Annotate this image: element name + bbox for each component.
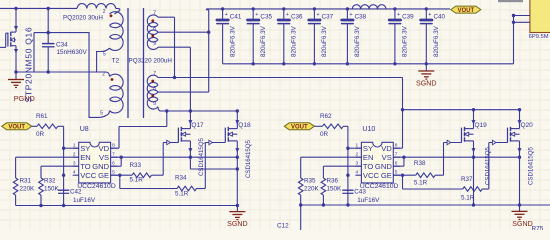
svg-text:0R: 0R: [320, 131, 329, 138]
wire TO drop: [40, 166, 42, 178]
svg-text:820uF6.3V: 820uF6.3V: [433, 25, 440, 57]
transformer T2 secondary winding upper 7-8: [147, 15, 158, 34]
svg-text:STP20NM50 Q16: STP20NM50 Q16: [24, 27, 34, 103]
label R32: [44, 178, 56, 185]
svg-text:EN: EN: [80, 153, 91, 162]
svg-text:R33: R33: [130, 162, 142, 169]
label C42 value 1uF16V: [73, 197, 96, 204]
svg-text:CSD16415Q5: CSD16415Q5: [245, 139, 252, 178]
transistor Q16 (STP20NM50): [0, 32, 18, 72]
ground SGND mid: [227, 206, 248, 229]
svg-text:8: 8: [153, 86, 156, 92]
label R75: [532, 226, 544, 233]
svg-text:C38: C38: [355, 13, 367, 20]
label C41 value 820uF6.3V: [229, 25, 236, 57]
wire drop to C12 net: [300, 205, 302, 230]
node junction C39 bottom: [393, 62, 396, 65]
wire VOUT to R62: [314, 125, 322, 127]
node junction C43 bottom: [346, 203, 349, 206]
svg-text:5.1R: 5.1R: [414, 179, 428, 186]
svg-text:SGND: SGND: [512, 220, 533, 228]
label R38: [414, 160, 426, 167]
svg-text:2: 2: [103, 9, 106, 15]
svg-text:C34: C34: [56, 42, 68, 49]
svg-text:15nH630V: 15nH630V: [57, 49, 88, 56]
label R31: [20, 178, 32, 185]
svg-text:5.1R: 5.1R: [130, 177, 144, 184]
svg-text:8: 8: [153, 26, 156, 32]
svg-text:TO: TO: [363, 162, 374, 171]
label R34 value 5.1R: [175, 190, 189, 197]
svg-text:7: 7: [112, 151, 115, 157]
wire switch-node riser: [33, 33, 35, 72]
wire primary lower pin5 lead: [89, 33, 110, 118]
svg-text:CSD16415Q5: CSD16415Q5: [485, 146, 492, 185]
label C38: [355, 13, 367, 20]
svg-text:6: 6: [112, 160, 115, 166]
label R61 value 0R: [36, 131, 45, 138]
svg-text:2: 2: [73, 151, 76, 157]
label C40 value 820uF6.3V: [433, 25, 440, 57]
wire R33 to Q17 gate: [152, 143, 164, 176]
svg-text:7: 7: [153, 71, 156, 77]
svg-text:C41: C41: [230, 13, 242, 20]
label R33: [130, 162, 142, 169]
wire VS line U10: [393, 156, 519, 158]
svg-text:8: 8: [112, 142, 115, 148]
svg-text:R62: R62: [320, 113, 332, 120]
node junction drain rail tap: [401, 108, 404, 111]
svg-text:VOUT: VOUT: [457, 8, 474, 14]
wire switch-node horizontal: [34, 32, 89, 34]
label C37 value 820uF6.3V: [321, 25, 328, 57]
svg-text:SY: SY: [363, 144, 373, 153]
node junction 7u-7l tie: [173, 76, 176, 79]
label C43 value 1uF16V: [357, 197, 380, 204]
svg-text:4: 4: [73, 169, 76, 175]
svg-text:1: 1: [356, 142, 359, 148]
wire R35 to rail: [300, 195, 302, 205]
svg-text:820uF6.3V: 820uF6.3V: [354, 25, 361, 57]
node junction Q18 source rail: [236, 167, 239, 170]
label C35 value 820uF6.3V: [260, 25, 267, 57]
wire Q16 drain vertical: [14, 8, 18, 32]
connector 6P9.5MM: [529, 0, 550, 40]
resistor R36 150K: [321, 178, 326, 195]
node junction Q20 source on VS line: [518, 156, 521, 159]
ground SGND right: [512, 205, 533, 228]
wire R62 to SY/VCC vertical: [343, 126, 348, 205]
label T2 pin 5 lower: [100, 111, 103, 117]
capacitor C43 1uF16V: [342, 190, 353, 193]
wire 9u drop to SR drain net: [189, 47, 191, 111]
wire R32 to rail: [40, 195, 42, 206]
wire VS to GND pin link U10: [393, 157, 404, 166]
svg-text:2: 2: [356, 151, 359, 157]
wire EN line U10: [301, 156, 362, 158]
svg-text:VCC: VCC: [363, 171, 380, 180]
wire R31 to rail: [15, 195, 17, 206]
wire GE drop to R34 line: [120, 175, 177, 188]
node junction Q20 drain: [518, 108, 521, 111]
svg-text:UCC24610D: UCC24610D: [77, 183, 116, 190]
svg-text:U8: U8: [80, 126, 89, 133]
wire R38 to Q19 gate: [435, 143, 443, 176]
svg-text:5.1R: 5.1R: [461, 195, 475, 202]
wire GE drop to R37 line: [403, 175, 463, 189]
label C38 value 820uF6.3V: [354, 25, 361, 57]
ground PGND: [8, 72, 35, 103]
transistor Q20 CSD16415Q5: [489, 110, 533, 158]
svg-text:SY: SY: [80, 144, 90, 153]
wire TO drop U10: [322, 166, 324, 178]
capacitor C37 820uF6.3V: [307, 7, 321, 64]
node junction Q19 drain: [472, 108, 475, 111]
svg-text:820uF6.3V: 820uF6.3V: [260, 25, 267, 57]
label T2 pin 8 upper: [153, 26, 156, 32]
svg-text:3: 3: [356, 160, 359, 166]
svg-text:820uF6.3V: 820uF6.3V: [402, 25, 409, 57]
svg-text:1: 1: [73, 142, 76, 148]
label C36: [291, 13, 303, 20]
capacitor C40 820uF6.3V: [419, 7, 433, 64]
node junction Q19 source rail: [472, 203, 475, 206]
svg-text:C37: C37: [322, 13, 334, 20]
wire primary link pin5-to-pin2: [97, 48, 110, 72]
label C39: [402, 13, 414, 20]
svg-text:1uF16V: 1uF16V: [357, 197, 380, 204]
node polarity dot primary lower: [111, 78, 114, 81]
label R61: [36, 113, 48, 120]
wire cap bank top rail: [206, 9, 450, 10]
label C42: [70, 188, 82, 195]
svg-text:5: 5: [112, 169, 115, 175]
wire TO line: [41, 165, 79, 167]
label T2 part PQ3220 200uH: [129, 57, 173, 64]
label C41: [230, 13, 242, 20]
power port VOUT top right: [451, 6, 481, 14]
resistor R31 220K: [13, 178, 18, 195]
node junction Q16 source to PGND: [14, 70, 17, 73]
label T2 pin 7 upper: [153, 11, 156, 17]
wire pin9 upper lead: [158, 46, 190, 48]
svg-text:VD: VD: [99, 144, 110, 153]
node junction 8u on VOUT drop: [207, 31, 210, 34]
svg-text:R75: R75: [532, 226, 544, 230]
node junction top rail at C34 branch: [47, 7, 50, 10]
svg-text:CSD16415Q5: CSD16415Q5: [198, 137, 205, 176]
wire VOUT to R61: [32, 125, 37, 127]
wire rail to transformer pin 2: [115, 8, 120, 14]
svg-text:C40: C40: [434, 13, 446, 20]
wire SY pin lead U10: [348, 147, 362, 149]
svg-text:4: 4: [356, 169, 359, 175]
node junction 9-net at Q17 drain: [189, 109, 192, 112]
node junction C40 bottom: [425, 62, 428, 65]
svg-text:R34: R34: [175, 175, 187, 182]
transistor Q18 CSD16415Q5: [205, 111, 251, 157]
svg-text:3: 3: [73, 160, 76, 166]
wire U8 local ground rail: [16, 205, 238, 207]
svg-text:CSD16415Q5: CSD16415Q5: [528, 146, 535, 185]
node junction R36 bottom: [322, 203, 325, 206]
svg-text:R61: R61: [36, 113, 48, 120]
wire top rail left section: [0, 7, 77, 9]
power port VOUT middle: [284, 123, 314, 131]
svg-text:UCC24610D: UCC24610D: [360, 183, 399, 190]
svg-text:6P9.5M: 6P9.5M: [529, 34, 549, 40]
wire EN drop left: [15, 157, 17, 178]
wire R36 to rail: [322, 195, 324, 205]
wire net 7u-7l vertical: [174, 17, 176, 77]
svg-text:820uF6.3V: 820uF6.3V: [291, 25, 298, 57]
svg-text:Q18: Q18: [238, 122, 251, 129]
label R32 value 150K: [44, 186, 60, 193]
label R38 value 5.1R: [414, 179, 428, 186]
svg-text:SGND: SGND: [416, 80, 437, 88]
svg-text:C35: C35: [260, 13, 272, 20]
svg-text:U10: U10: [362, 126, 375, 133]
svg-text:+: +: [428, 12, 431, 18]
wire EN drop U10: [300, 157, 302, 178]
label Q18 part CSD16415Q5: [245, 139, 252, 178]
node junction at C34 top: [47, 31, 50, 34]
wire VD sense link U8: [111, 111, 167, 148]
node junction C36 bottom: [282, 62, 285, 65]
node junction VS-GND tie U10: [402, 156, 405, 159]
node junction connector pin 2: [512, 21, 515, 24]
wire EN line: [16, 156, 79, 158]
resistor R61 0R: [37, 124, 58, 129]
svg-text:C39: C39: [402, 13, 414, 20]
svg-text:1uF16V: 1uF16V: [73, 197, 96, 204]
svg-text:GE: GE: [98, 171, 109, 180]
svg-text:R35: R35: [304, 178, 316, 185]
resistor R62 0R: [322, 124, 343, 129]
node junction Q17 source on VS line: [189, 156, 192, 159]
wire R61 to SY/VCC vertical: [58, 126, 64, 205]
wire R34 to Q18 gate: [197, 143, 206, 189]
label C37: [322, 13, 334, 20]
label C35: [260, 13, 272, 20]
wire C34 upper lead: [47, 8, 49, 43]
wire connector ground drop: [513, 16, 515, 64]
svg-text:R31: R31: [20, 178, 32, 185]
svg-text:150K: 150K: [327, 186, 343, 193]
label R35 value 220K: [304, 186, 320, 193]
svg-text:GND: GND: [92, 162, 109, 171]
svg-text:PQ2020 30uH: PQ2020 30uH: [63, 14, 103, 21]
node junction GE split U10: [401, 174, 404, 177]
node junction Q19 source on VS line: [472, 156, 475, 159]
label C36 value 820uF6.3V: [291, 25, 298, 57]
svg-text:VOUT: VOUT: [291, 125, 308, 131]
node polarity dot secondary lower 8-9: [151, 94, 154, 97]
svg-text:Q20: Q20: [521, 122, 534, 129]
svg-text:T2: T2: [112, 57, 120, 64]
svg-text:8: 8: [395, 142, 398, 148]
resistor R37 5.1R: [463, 187, 483, 192]
node junction VCC tap: [62, 174, 65, 177]
label R37: [461, 176, 473, 183]
transformer T2 secondary winding lower 7-8: [147, 75, 158, 94]
svg-text:0R: 0R: [36, 131, 45, 138]
svg-text:5: 5: [103, 52, 106, 58]
svg-text:820uF6.3V: 820uF6.3V: [321, 25, 328, 57]
wire Q18 source drop to ground rail: [236, 157, 238, 205]
svg-text:150K: 150K: [44, 186, 60, 193]
svg-text:R36: R36: [327, 178, 339, 185]
svg-text:9: 9: [153, 41, 156, 47]
svg-text:220K: 220K: [20, 186, 36, 193]
node junction VS-GND tie: [120, 156, 123, 159]
label R33 value 5.1R: [130, 177, 144, 184]
node junction SY tap U10: [346, 147, 349, 150]
svg-text:9: 9: [153, 101, 156, 107]
capacitor C35 820uF6.3V: [246, 7, 260, 64]
capacitor C38 820uF6.3V: [340, 7, 354, 64]
svg-text:2: 2: [102, 72, 105, 78]
node junction C38 bottom: [346, 62, 349, 65]
svg-text:VS: VS: [99, 153, 109, 162]
wire cap bank bottom rail: [223, 63, 514, 65]
wire GE lead U10: [393, 174, 415, 176]
node junction 9-net VD tap: [165, 109, 168, 112]
node polarity dot secondary lower 7-8: [151, 80, 154, 83]
svg-text:Q17: Q17: [191, 122, 204, 129]
capacitor C42 1uF16V: [58, 190, 69, 193]
transformer T2 core: [128, 8, 144, 118]
svg-text:+: +: [225, 12, 228, 18]
label C34 value 15nH630V: [56, 42, 87, 57]
transformer T2 secondary winding lower 8-9: [147, 90, 162, 111]
svg-text:R37: R37: [461, 176, 473, 183]
node polarity dot secondary upper 7-8: [151, 19, 154, 22]
wire cut-off element top edge: [498, 0, 523, 2]
node junction top rail at Q16 drain: [14, 7, 17, 10]
svg-text:VD: VD: [381, 144, 392, 153]
wire connector pin stubs: [514, 16, 530, 23]
label R36: [327, 178, 339, 185]
capacitor C41 820uF6.3V: [216, 7, 230, 64]
node junction VCC tap U10: [346, 174, 349, 177]
svg-text:5: 5: [100, 111, 103, 117]
svg-text:R32: R32: [44, 178, 56, 185]
wire pin8 upper lead: [158, 31, 209, 33]
svg-text:TO: TO: [80, 162, 91, 171]
svg-text:7: 7: [395, 151, 398, 157]
label R36 value 150K: [327, 186, 343, 193]
transformer T2 primary winding upper (pins 2-5): [110, 12, 124, 51]
node junction C37 bottom: [313, 62, 316, 65]
node polarity dot secondary upper 8-9: [151, 34, 154, 37]
node junction GE split: [118, 174, 121, 177]
svg-text:+: +: [316, 12, 319, 18]
transformer T2 primary winding lower (pins 2-5): [106, 72, 123, 113]
svg-text:C12: C12: [277, 223, 289, 230]
svg-text:+: +: [349, 12, 352, 18]
power port VOUT left: [2, 123, 32, 131]
label C12: [277, 223, 289, 230]
node junction R35 bottom: [299, 203, 302, 206]
node junction Q18 drain: [236, 109, 239, 112]
inductor PQ2020 30uH: [77, 4, 115, 9]
svg-text:VCC: VCC: [80, 171, 97, 180]
resistor R34 5.1R: [177, 186, 197, 191]
svg-text:EN: EN: [363, 153, 374, 162]
node junction R32 bottom: [39, 204, 42, 207]
label C39 value 820uF6.3V: [402, 25, 409, 57]
label R62 value 0R: [320, 131, 329, 138]
resistor R35 220K: [298, 178, 303, 195]
wire primary return horizontal: [16, 71, 106, 73]
wire VS to GND pin link: [111, 157, 122, 166]
svg-text:+: +: [286, 12, 289, 18]
svg-text:7: 7: [153, 11, 156, 17]
svg-text:+: +: [397, 12, 400, 18]
wire R37 to Q20 gate: [482, 143, 489, 190]
node polarity dot primary upper: [110, 14, 113, 17]
label T2 pin 5 upper: [103, 52, 106, 58]
svg-text:C36: C36: [291, 13, 303, 20]
resistor R33 5.1R: [132, 173, 152, 178]
label R31 value 220K: [20, 186, 36, 193]
node junction ground rail at SGND right: [518, 203, 521, 206]
wire SY pin lead: [64, 147, 79, 149]
label T2 pin 7 lower: [153, 71, 156, 77]
svg-text:PQ3220 200uH: PQ3220 200uH: [129, 57, 173, 64]
wire pin8 lower lead: [158, 91, 209, 93]
svg-text:820uF6.3V: 820uF6.3V: [229, 25, 236, 57]
wire pin7 lower lead long (drain net Q19 Q20): [158, 77, 403, 79]
svg-text:GE: GE: [381, 171, 392, 180]
label R35: [304, 178, 316, 185]
capacitor C39 820uF6.3V: [388, 7, 402, 64]
capacitor C34: [42, 44, 55, 47]
svg-text:5: 5: [395, 169, 398, 175]
svg-text:+: +: [255, 12, 258, 18]
node junction C34 to primary return: [47, 70, 50, 73]
op-amp U10 UCC24610D: [355, 126, 400, 190]
transistor Q19 CSD16415Q5: [444, 110, 488, 158]
inductor output filter on rail: [352, 5, 386, 9]
svg-text:5.1R: 5.1R: [175, 190, 189, 197]
wire VOUT center-tap drop vertical: [208, 10, 210, 92]
svg-text:VOUT: VOUT: [8, 125, 25, 131]
label T2 pin 9 lower: [153, 101, 156, 107]
svg-text:GND: GND: [375, 162, 392, 171]
op-amp U8 UCC24610D: [73, 126, 118, 190]
wire Q17 source to link rail: [189, 157, 191, 169]
label Q19 part CSD16415Q5: [485, 146, 492, 185]
label R34: [175, 175, 187, 182]
label T2 pin 2 upper: [103, 9, 106, 15]
label C43: [354, 188, 366, 195]
svg-text:6: 6: [395, 160, 398, 166]
node junction C35 bottom: [252, 62, 255, 65]
node junction Q18 source on VS line: [236, 156, 239, 159]
resistor R38 5.1R: [416, 173, 436, 178]
label Q17 part CSD16415Q5: [198, 137, 205, 176]
label T2 pin 2 lower: [102, 72, 105, 78]
wire C34 lower lead: [47, 47, 49, 72]
transistor Q17 CSD16415Q5: [163, 111, 204, 157]
wire Q20 source drop: [519, 157, 521, 205]
label T2 designator: [112, 57, 120, 64]
label PQ2020 30uH: [63, 14, 103, 21]
ground SGND top (cap bank): [416, 64, 437, 88]
node junction C42 bottom: [62, 204, 65, 207]
